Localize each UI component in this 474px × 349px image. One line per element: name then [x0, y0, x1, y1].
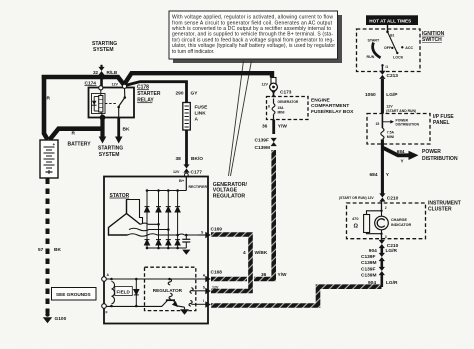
svg-text:SWITCH: SWITCH — [422, 37, 442, 43]
svg-text:FIELD: FIELD — [117, 290, 131, 295]
svg-text:57: 57 — [38, 247, 44, 253]
svg-text:(START AND RUN): (START AND RUN) — [386, 109, 416, 113]
rectifier diode column 2 — [156, 191, 161, 249]
battery B1 — [40, 140, 58, 178]
pin 15 arrow to power distribution — [376, 119, 420, 127]
wire S pin internal — [192, 290, 205, 292]
svg-text:B1: B1 — [390, 33, 394, 37]
wire battery to junction (horizontal) — [43, 75, 45, 80]
HOT AT ALL TIMES header — [366, 15, 418, 25]
svg-text:LG/P: LG/P — [386, 92, 398, 98]
svg-text:CLUSTER: CLUSTER — [428, 206, 452, 212]
svg-text:C213: C213 — [387, 73, 399, 79]
svg-text:STARTER: STARTER — [137, 91, 161, 97]
svg-text:DISTRIBUTION: DISTRIBUTION — [396, 123, 420, 127]
wire A continuation — [254, 277, 276, 282]
svg-text:REGULATOR: REGULATOR — [153, 288, 183, 293]
svg-text:SYSTEM: SYSTEM — [99, 152, 120, 158]
regulator S squiggle — [190, 288, 193, 294]
svg-text:IGNITION: IGNITION — [422, 31, 445, 37]
pin S arrow (C168) — [203, 285, 211, 294]
wire hot feed into ignition switch — [387, 25, 389, 31]
svg-text:HOT AT ALL TIMES: HOT AT ALL TIMES — [369, 18, 411, 23]
svg-text:G100: G100 — [55, 316, 67, 322]
label 904 LG/R (lower) — [368, 280, 398, 286]
wire terminal to C173 — [273, 91, 275, 97]
label 36 Y/W (upper) — [262, 123, 287, 129]
SEE GROUNDS box — [52, 288, 97, 301]
svg-text:R: R — [47, 96, 51, 102]
resistor R1 470 ohm — [364, 215, 370, 233]
label GENERATOR/ VOLTAGE REGULATOR — [213, 182, 248, 200]
rectifier bottom bus — [147, 247, 186, 249]
svg-text:to turn off indicator.: to turn off indicator. — [172, 49, 214, 55]
ground G100 — [43, 312, 67, 323]
note box shadow — [173, 15, 342, 63]
svg-text:RUN: RUN — [367, 55, 375, 59]
label CHARGE INDICATOR — [391, 218, 411, 227]
capacitor C1 — [182, 235, 190, 248]
label C139F C139M (pair 1) — [361, 254, 376, 266]
field junction dots — [110, 278, 171, 308]
ignition rotary arc — [373, 43, 381, 58]
svg-text:R: R — [72, 130, 76, 136]
svg-text:LINK: LINK — [195, 111, 207, 117]
wire C169 S to 4 W/BK (hatched) — [211, 235, 251, 292]
connector C139 symbol 2 (right wire) — [379, 267, 385, 275]
label 12V C177 — [173, 169, 202, 175]
svg-text:B+: B+ — [179, 178, 185, 183]
label INSTRUMENT CLUSTER — [428, 201, 461, 213]
svg-text:C210: C210 — [387, 243, 399, 249]
leader line to generator label — [229, 61, 244, 177]
power distribution takeoff arrow 684 Y — [382, 148, 418, 164]
svg-text:15: 15 — [376, 122, 380, 126]
label 57 BK — [38, 247, 61, 253]
wire 36 Y/W upper — [272, 120, 275, 135]
relay internal sub box — [92, 94, 106, 114]
generator F brush terminal — [102, 304, 107, 309]
relay right stud — [122, 84, 126, 88]
svg-text:12V: 12V — [173, 170, 180, 174]
regulator I squiggle — [189, 300, 192, 306]
pin S arrow (C169) — [201, 230, 211, 238]
wire BK relay to starting system — [117, 118, 120, 138]
label I/P FUSE PANEL — [433, 114, 454, 126]
stator phase lead 3 — [128, 234, 205, 237]
svg-text:C139M: C139M — [361, 260, 376, 266]
svg-text:MINI: MINI — [278, 111, 285, 115]
wire into cluster — [381, 202, 383, 212]
relay coil K1 — [99, 96, 103, 113]
label 12V (START AND RUN) — [386, 105, 416, 114]
field diode CR2 — [134, 279, 139, 306]
rectifier top bus — [147, 190, 186, 192]
svg-text:C139M: C139M — [255, 145, 270, 151]
relay bottom stud — [100, 115, 106, 121]
wire S internal to edge — [198, 234, 206, 236]
svg-text:BK: BK — [54, 247, 61, 253]
wire F rail — [106, 305, 162, 307]
ignition bottom terminal — [381, 64, 383, 66]
svg-text:W/BK: W/BK — [255, 250, 268, 256]
svg-text:Y/W: Y/W — [278, 272, 288, 278]
svg-text:C177: C177 — [191, 169, 203, 175]
svg-text:REGULATOR: REGULATOR — [213, 193, 246, 199]
svg-text:Y/W: Y/W — [278, 123, 288, 129]
svg-text:2: 2 — [385, 206, 387, 210]
relay actuation dashed link — [105, 103, 118, 105]
wire B+ into rectifier bus — [185, 177, 187, 191]
label FUSE LINK A — [195, 105, 209, 123]
stator phase lead 1 — [141, 223, 159, 224]
svg-text:C168: C168 — [211, 269, 223, 275]
wire into fuse 15 — [381, 114, 383, 129]
connector C213 symbol — [379, 71, 385, 79]
wire from C174 to relay — [100, 75, 103, 87]
label STATOR — [110, 193, 130, 199]
svg-text:3: 3 — [385, 235, 387, 239]
connector C177 inline symbol — [183, 164, 189, 172]
svg-text:FUSE: FUSE — [195, 105, 209, 111]
wire junction to relay right stud — [102, 77, 125, 86]
svg-text:LG/R: LG/R — [386, 280, 398, 286]
label 904 LG/R (upper) — [369, 248, 398, 254]
svg-text:C173: C173 — [280, 90, 292, 96]
note box — [169, 11, 338, 59]
svg-text:PANEL: PANEL — [433, 120, 450, 126]
relay terminal C174 post — [99, 86, 103, 90]
wire relay stud to fuse link A — [125, 82, 187, 103]
wire 32 R/LB stub — [100, 65, 102, 67]
svg-text:36: 36 — [261, 272, 267, 278]
svg-text:OFF: OFF — [384, 46, 392, 50]
svg-text:8: 8 — [268, 105, 270, 109]
wire C168 A to 36 Y/W (hatched, crosses 4 W/BK) — [211, 277, 247, 282]
svg-text:LG/R: LG/R — [386, 248, 398, 254]
svg-text:SYSTEM: SYSTEM — [93, 47, 114, 53]
svg-text:12V: 12V — [386, 105, 393, 109]
svg-text:GY: GY — [191, 90, 199, 96]
svg-text:MINI: MINI — [387, 135, 394, 139]
svg-text:15A: 15A — [278, 106, 285, 110]
svg-text:38: 38 — [176, 156, 182, 162]
svg-text:BATTERY: BATTERY — [68, 141, 92, 147]
label 36 Y/W (lower) — [261, 272, 287, 278]
ignition switch dashed box — [357, 29, 421, 72]
svg-text:36: 36 — [262, 123, 268, 129]
svg-text:Ω: Ω — [354, 224, 359, 230]
svg-text:470: 470 — [352, 216, 359, 221]
transistor Q1 — [162, 293, 185, 307]
svg-text:R/LB: R/LB — [107, 70, 118, 75]
label 4 W/BK — [243, 250, 268, 256]
connector C139 inline symbol (middle wire) — [271, 138, 277, 146]
rectifier diode column 4 — [175, 191, 180, 249]
label 32 R/LB — [93, 70, 118, 75]
generator A brush terminal — [102, 277, 107, 282]
switch position dots — [391, 46, 403, 54]
svg-text:FUSE/RELAY BOX: FUSE/RELAY BOX — [311, 109, 354, 115]
svg-text:1050: 1050 — [365, 92, 376, 98]
I/P fuse panel dashed box — [367, 114, 430, 145]
fuse link A — [183, 103, 191, 131]
stator winding shape — [109, 200, 143, 236]
relay switch contact — [117, 88, 126, 117]
wire 904 lower into hatched run — [380, 275, 383, 287]
rectifier junction dots — [146, 189, 188, 249]
ground (regulator) — [180, 307, 189, 315]
starter relay U1 box — [89, 88, 135, 118]
label C139F C139M (pair 2) — [361, 267, 376, 279]
rectifier diode column 1 — [145, 191, 150, 249]
arrow BK starting system — [115, 137, 123, 144]
wire 1050 LG/P — [381, 79, 384, 114]
svg-text:904: 904 — [369, 248, 377, 254]
svg-text:START: START — [368, 38, 381, 42]
svg-text:BK: BK — [123, 127, 130, 133]
pin I arrow (C168) — [203, 299, 211, 308]
svg-text:684: 684 — [370, 172, 378, 178]
regulator dashed box — [145, 267, 196, 310]
relay internal wire top — [100, 90, 102, 95]
wire 36 Y/W vertical (hatched) — [271, 150, 276, 281]
svg-text:ENGINE: ENGINE — [311, 97, 330, 103]
svg-text:684: 684 — [397, 149, 405, 154]
svg-text:BK/O: BK/O — [191, 156, 203, 162]
svg-text:STARTING: STARTING — [98, 146, 123, 152]
ignition switch positions — [367, 38, 414, 59]
svg-text:COMPARTMENT: COMPARTMENT — [311, 103, 349, 109]
regulator input squiggle — [168, 279, 171, 285]
connector C210 symbol (bottom) — [379, 240, 385, 248]
label 470 ohm — [352, 216, 359, 230]
label C178 STARTER RELAY — [137, 85, 161, 104]
wire relay stud down to starting system — [100, 118, 104, 138]
charge indicator lamp DS1 — [375, 211, 389, 234]
svg-text:GENERATOR: GENERATOR — [278, 100, 299, 104]
svg-text:4: 4 — [243, 250, 246, 256]
svg-text:C139F: C139F — [255, 137, 269, 143]
generator fuse 15A — [268, 99, 299, 120]
field coil L1 — [112, 282, 115, 304]
instrument cluster dashed box — [347, 203, 426, 239]
wire parallel branch bottom — [367, 233, 382, 234]
svg-text:Y: Y — [401, 159, 404, 164]
svg-text:DISTRIBUTION: DISTRIBUTION — [422, 156, 458, 162]
wire battery vertical — [44, 75, 48, 140]
label IGNITION SWITCH — [422, 31, 445, 43]
label 290 GY — [176, 90, 199, 96]
svg-text:RECTIFIER: RECTIFIER — [189, 185, 208, 189]
svg-text:+: + — [53, 142, 56, 147]
wire I pin internal — [191, 303, 205, 305]
wire 38 BK/O fuse link to generator — [185, 130, 188, 165]
ignition switch B1 terminal — [386, 31, 389, 34]
wire A rail — [106, 278, 206, 280]
svg-text:A: A — [195, 116, 199, 122]
svg-text:SEE GROUNDS: SEE GROUNDS — [56, 292, 91, 297]
svg-text:C139F: C139F — [361, 254, 375, 260]
svg-text:INDICATOR: INDICATOR — [391, 223, 411, 227]
svg-text:12V: 12V — [262, 83, 269, 87]
svg-text:C210: C210 — [387, 196, 399, 202]
svg-text:12V: 12V — [112, 82, 119, 86]
connector C174 inline symbol — [98, 67, 104, 75]
wire out of fuse panel — [381, 139, 384, 194]
label C139F C139M (middle wire) — [255, 137, 270, 151]
label ENGINE COMPARTMENT FUSE/RELAY BOX — [311, 97, 354, 115]
label 1050 LG/P — [365, 92, 398, 98]
label POWER DISTRIBUTION (takeoff) — [422, 149, 458, 162]
wire between connectors — [380, 261, 383, 267]
label STARTING SYSTEM (top feed) — [92, 41, 117, 53]
engine compartment fuse/relay box (dashed) — [267, 97, 309, 120]
wire ignition output — [381, 66, 383, 72]
leader line 2 to generator label — [231, 61, 252, 177]
svg-text:LOCK: LOCK — [393, 55, 404, 59]
node bottom — [380, 233, 382, 235]
connector C210 symbol (top) — [379, 193, 385, 201]
svg-text:CHARGE: CHARGE — [391, 218, 408, 222]
svg-text:ACC: ACC — [405, 46, 413, 50]
svg-text:290: 290 — [176, 90, 184, 96]
wire 904 upper — [380, 248, 383, 253]
svg-text:F: F — [106, 311, 108, 315]
generator B+ terminal post — [184, 173, 188, 177]
svg-text:C139M: C139M — [361, 273, 376, 279]
arrow to starting system (battery feed) — [99, 137, 107, 144]
relay internal wire bottom — [101, 112, 103, 116]
svg-text:32: 32 — [93, 70, 99, 75]
stator phase lead 2 — [129, 228, 168, 231]
wire C168 I to 904 run (hatched) — [211, 287, 382, 306]
ground (rectifier internal) — [182, 250, 190, 255]
connector C173 symbol — [271, 91, 276, 97]
wire battery to relay stud (lower horizontal) — [50, 129, 103, 140]
svg-text:C139F: C139F — [361, 267, 375, 273]
wire hot feed to engine fuse box (top run) — [124, 73, 273, 85]
svg-text:C169: C169 — [211, 226, 223, 232]
svg-text:I1: I1 — [386, 65, 389, 69]
svg-text:I: I — [203, 299, 204, 303]
label 684 Y (main wire) — [370, 172, 390, 178]
relay clamp diode CR1 — [92, 97, 99, 112]
fuse 7.5A MINI — [381, 128, 395, 139]
connector C139 symbol 1 (right wire) — [379, 253, 385, 261]
generator/voltage regulator box — [104, 177, 208, 324]
label FIELD (boxed) — [115, 287, 133, 296]
wire parallel branch top — [367, 211, 382, 215]
pin A arrow (C168) — [203, 273, 211, 282]
svg-text:(START OR RUN) 12V: (START OR RUN) 12V — [339, 196, 374, 200]
wire 57 BK battery ground (dashed) — [46, 179, 50, 314]
svg-text:POWER: POWER — [422, 149, 441, 155]
label STARTING SYSTEM (bottom) — [98, 146, 123, 158]
node top (lamp/resistor) — [380, 210, 382, 212]
wire out of cluster — [381, 234, 383, 241]
ignition wiper — [388, 32, 398, 53]
rectifier diode column 3 — [166, 191, 171, 249]
label 38 BK/O — [176, 156, 204, 162]
svg-text:904: 904 — [368, 280, 376, 286]
12V ring terminal (engine fuse box feed) — [270, 78, 278, 91]
